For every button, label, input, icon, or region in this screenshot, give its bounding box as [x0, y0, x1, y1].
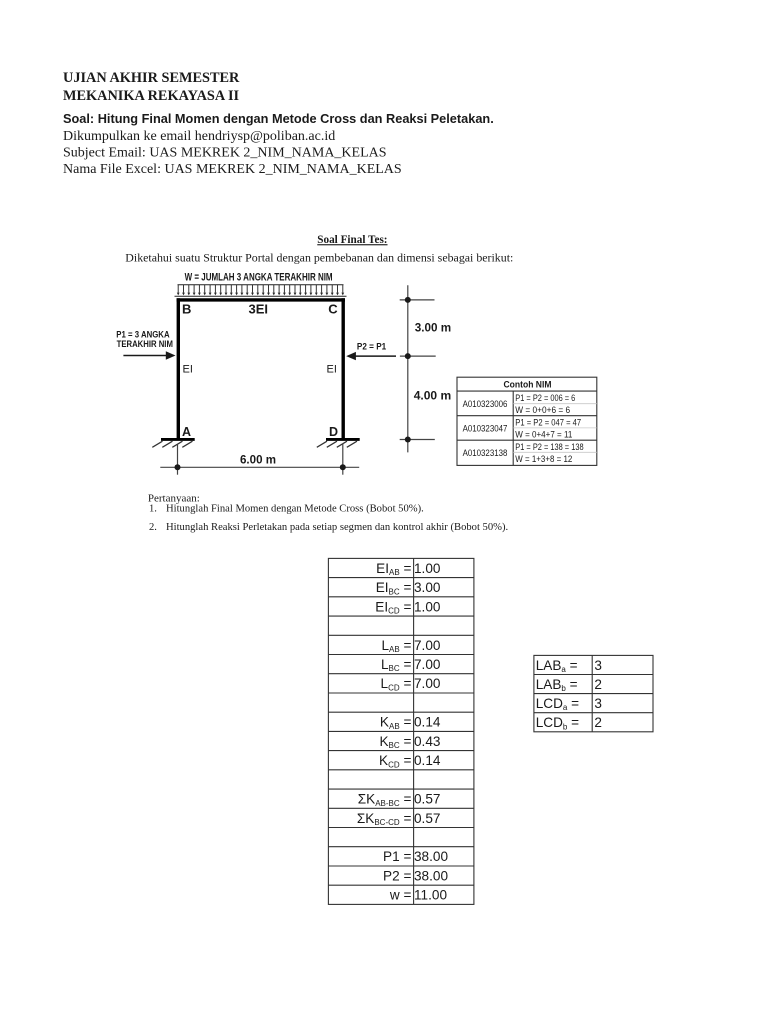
column CD	[342, 298, 345, 439]
svg-text:4.00 m: 4.00 m	[414, 389, 452, 403]
svg-text:0.14: 0.14	[414, 715, 441, 730]
svg-text:11.00: 11.00	[414, 888, 447, 903]
svg-text:3: 3	[594, 658, 602, 673]
distributed load ticks	[177, 285, 344, 295]
svg-text:W = JUMLAH 3 ANGKA TERAKHIR NI: W = JUMLAH 3 ANGKA TERAKHIR NIM	[185, 271, 333, 283]
svg-text:3EI: 3EI	[249, 302, 269, 317]
svg-text:P1 =: P1 =	[383, 849, 411, 864]
svg-text:D: D	[329, 425, 338, 439]
svg-text:Contoh NIM: Contoh NIM	[504, 379, 552, 390]
svg-text:B: B	[182, 302, 191, 317]
svg-text:Hitunglah Reaksi Perletakan pa: Hitunglah Reaksi Perletakan pada setiap …	[166, 522, 508, 533]
svg-text:7.00: 7.00	[414, 657, 441, 672]
horizontal dimension line 6.00 m	[160, 444, 359, 475]
svg-text:KCD =: KCD =	[379, 753, 411, 769]
svg-text:UJIAN AKHIR SEMESTER: UJIAN AKHIR SEMESTER	[63, 70, 240, 86]
svg-text:C: C	[328, 302, 338, 317]
svg-text:ΣKAB-BC =: ΣKAB-BC =	[358, 792, 412, 808]
main calculation table	[328, 558, 474, 904]
svg-text:P1 = P2 = 047 = 47: P1 = P2 = 047 = 47	[515, 416, 581, 427]
svg-text:Soal Final Tes:: Soal Final Tes:	[317, 234, 387, 246]
svg-text:Nama File Excel: UAS MEKREK 2_: Nama File Excel: UAS MEKREK 2_NIM_NAMA_K…	[63, 162, 402, 177]
svg-text:3.00: 3.00	[414, 580, 441, 595]
svg-text:EICD =: EICD =	[375, 599, 411, 615]
svg-text:LABb =: LABb =	[536, 677, 578, 693]
arrow P2	[346, 352, 396, 360]
svg-text:Diketahui suatu Struktur Porta: Diketahui suatu Struktur Portal dengan p…	[125, 251, 513, 265]
svg-text:LCDb =: LCDb =	[536, 715, 579, 731]
svg-text:LCD =: LCD =	[381, 676, 412, 692]
svg-text:P1 = P2 = 006 = 6: P1 = P2 = 006 = 6	[515, 392, 575, 403]
svg-text:0.43: 0.43	[414, 734, 440, 749]
svg-text:Soal: Hitung Final Momen denga: Soal: Hitung Final Momen dengan Metode C…	[63, 111, 494, 126]
svg-text:W = 0+4+7 = 11: W = 0+4+7 = 11	[515, 429, 572, 440]
side table	[534, 655, 653, 731]
svg-text:EI: EI	[327, 364, 337, 376]
svg-text:0.57: 0.57	[414, 811, 440, 826]
svg-text:LBC =: LBC =	[381, 657, 411, 673]
svg-text:W = 1+3+8 = 12: W = 1+3+8 = 12	[515, 453, 572, 464]
distributed load band	[175, 285, 347, 297]
svg-text:Subject Email: UAS MEKREK 2_NI: Subject Email: UAS MEKREK 2_NIM_NAMA_KEL…	[63, 146, 387, 161]
svg-text:7.00: 7.00	[414, 638, 441, 653]
svg-text:7.00: 7.00	[414, 676, 441, 691]
svg-text:P2 = P1: P2 = P1	[357, 342, 386, 352]
svg-text:P1 = 3 ANGKA: P1 = 3 ANGKA	[116, 330, 170, 340]
svg-text:0.14: 0.14	[414, 753, 441, 768]
support A	[152, 439, 194, 447]
svg-text:3.00 m: 3.00 m	[415, 320, 451, 334]
arrow P1	[123, 351, 175, 359]
svg-text:3: 3	[594, 696, 602, 711]
beam BC	[177, 298, 345, 301]
svg-text:LAB =: LAB =	[381, 638, 411, 654]
svg-text:A: A	[182, 425, 191, 439]
svg-text:38.00: 38.00	[414, 849, 448, 864]
svg-text:Dikumpulkan ke email hendriysp: Dikumpulkan ke email hendriysp@poliban.a…	[63, 129, 335, 144]
svg-text:TERAKHIR NIM: TERAKHIR NIM	[117, 339, 173, 349]
svg-text:2: 2	[594, 715, 602, 730]
svg-text:P1 = P2 = 138 = 138: P1 = P2 = 138 = 138	[515, 441, 583, 452]
svg-text:Hitunglah Final Momen dengan M: Hitunglah Final Momen dengan Metode Cros…	[166, 503, 424, 514]
svg-text:2.: 2.	[149, 522, 157, 533]
svg-text:38.00: 38.00	[414, 869, 448, 884]
svg-text:1.00: 1.00	[414, 599, 441, 614]
svg-text:W = 0+0+6 = 6: W = 0+0+6 = 6	[515, 404, 570, 415]
vertical dimension line	[400, 285, 436, 452]
svg-text:w =: w =	[389, 888, 412, 903]
svg-text:LABa =: LABa =	[536, 658, 578, 674]
svg-text:A010323006: A010323006	[463, 398, 508, 409]
svg-text:A010323138: A010323138	[463, 447, 508, 458]
svg-text:2: 2	[594, 677, 602, 692]
column AB	[177, 298, 180, 440]
svg-text:0.57: 0.57	[414, 792, 440, 807]
support D	[317, 439, 360, 447]
svg-text:EI: EI	[183, 364, 193, 376]
svg-text:KBC =: KBC =	[379, 734, 411, 750]
contoh NIM table	[457, 377, 597, 465]
svg-text:EIBC =: EIBC =	[376, 580, 412, 596]
svg-text:P2 =: P2 =	[383, 869, 411, 884]
svg-text:1.00: 1.00	[414, 561, 441, 576]
svg-text:6.00 m: 6.00 m	[240, 452, 276, 466]
svg-text:KAB =: KAB =	[380, 715, 412, 731]
svg-text:MEKANIKA REKAYASA II: MEKANIKA REKAYASA II	[63, 88, 240, 104]
svg-text:EIAB =: EIAB =	[376, 561, 411, 577]
svg-text:1.: 1.	[149, 503, 157, 514]
svg-text:LCDa =: LCDa =	[536, 696, 579, 712]
svg-text:ΣKBC-CD =: ΣKBC-CD =	[357, 811, 412, 827]
svg-text:A010323047: A010323047	[463, 422, 508, 433]
